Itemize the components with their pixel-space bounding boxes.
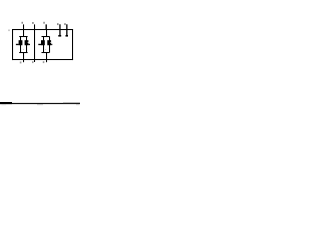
module 1 top bus [19,36,27,37]
module 2 top bus [42,36,50,37]
thyristor Q2 gate lead [28,44,30,45]
module 1 right branch wire (col 26) [26,36,27,52]
thyristor Q2 body [25,40,29,45]
module 1 bottom bus [19,52,27,53]
pin 5 end pad [66,35,69,37]
module 2 bottom pin label [43,61,45,63]
pin 4 hanging no-connect pin [59,24,60,35]
module 2 entry wire (col 46) [46,29,47,37]
pin 1 number label [22,22,24,24]
module 2 right branch wire (col 49) [49,36,50,52]
module 1 inner designator text [22,49,25,50]
footer center small text [37,104,43,105]
frame bottom edge [12,59,73,60]
thyristor Q3 gate lead [38,44,41,45]
module 1 bottom pin label [20,62,22,64]
pin 4 number label [57,23,59,25]
pin 3 number label [43,22,45,24]
frame top edge [12,29,73,30]
footer left bold segment [0,102,12,104]
module 2 left branch wire (col 43) [43,36,44,52]
footer right small text [76,104,80,105]
module 2 bottom bus [42,52,50,53]
footer mid light upper strip [12,101,63,104]
footer left small text [2,104,7,105]
module 2 exit wire and bottom pin stub (col 46) [46,52,47,62]
module 1 exit wire and bottom pin stub (col 23) [23,52,24,62]
module 2 inner designator text [44,49,47,50]
thyristor Q1 body [19,40,23,45]
thyristor Q4 gate lead [51,44,52,45]
thyristor Q4 body notch [49,42,52,43]
thyristor Q3 body [41,40,45,45]
footer rule [0,103,80,104]
pin 5 number label [64,23,66,25]
pin 5 hanging no-connect pin [66,24,67,35]
pin 2 number label [32,22,34,24]
frame right edge [72,29,73,60]
module 1 left branch wire (col 20) [20,36,21,52]
thyristor Q2 body notch [27,42,30,43]
pin 1 stub and module 1 entry wire (col 23) [23,24,24,36]
thyristor Q1 gate lead [16,44,19,45]
footer right upper strip [63,101,80,104]
pin 4 end pad [58,35,61,37]
node label left of frame [8,30,10,32]
pin 2 bottom label [32,61,34,63]
thyristor Q4 body [47,40,51,45]
pin 3 stub (top of module 2) [46,24,47,29]
pin 2 stub and mid vertical wire (col 34) [34,24,35,62]
frame left edge [12,29,13,60]
